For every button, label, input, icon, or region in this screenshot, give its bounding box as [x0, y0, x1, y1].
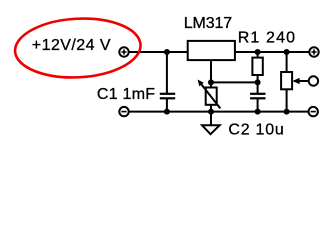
junction R3 top	[284, 49, 290, 55]
junction R3 bottom	[284, 109, 290, 115]
resistor R1	[252, 58, 262, 75]
terminal wiper output	[309, 76, 318, 85]
terminal - input	[119, 107, 128, 116]
potentiometer R3 (output divider)	[281, 72, 308, 89]
junction R2 bottom / ground	[208, 109, 214, 115]
wire ADJ rail	[211, 81, 258, 83]
label R1 240	[238, 29, 297, 46]
junction C2 bottom	[255, 109, 261, 115]
capacitor C2	[250, 94, 265, 99]
junction ADJ/R2 top	[208, 79, 214, 85]
terminal + output	[309, 47, 318, 56]
capacitor C1	[160, 94, 175, 99]
wire R1 stubs	[257, 52, 259, 82]
label C2 10u	[228, 121, 284, 138]
svg-text:C1 1mF: C1 1mF	[97, 86, 155, 103]
annotation ellipse (red)	[14, 15, 142, 80]
svg-text:+12V/24 V: +12V/24 V	[32, 37, 111, 54]
wire output rail (LM317 OUT to + output terminal)	[235, 51, 309, 53]
junction ADJ/R1 bottom	[255, 79, 261, 85]
wire bottom ground rail	[129, 111, 309, 113]
svg-text:LM317: LM317	[184, 15, 232, 32]
wire input rail (+ terminal to LM317 IN)	[129, 51, 187, 53]
svg-text:C2 10u: C2 10u	[228, 121, 284, 138]
wire C1 branch	[166, 52, 168, 112]
wire LM317 ADJ stub	[210, 60, 212, 82]
svg-text:R1 240: R1 240	[238, 29, 297, 46]
wire C2 branch	[257, 82, 259, 111]
label LM317	[184, 15, 232, 32]
label +12V/24 V	[32, 37, 111, 54]
regulator U1 LM317	[188, 41, 235, 60]
wire potentiometer R3 branch	[286, 52, 288, 112]
wire rheostat R2 stubs	[210, 82, 212, 111]
junction input/C1 top	[164, 49, 170, 55]
terminal - output	[309, 107, 318, 116]
junction C1 bottom	[164, 109, 170, 115]
label C1 1mF	[97, 86, 155, 103]
terminal + input	[119, 47, 128, 56]
potentiometer R2 (rheostat, diagonal arrow)	[198, 80, 221, 109]
junction R1 top	[255, 49, 261, 55]
ground	[202, 112, 220, 135]
